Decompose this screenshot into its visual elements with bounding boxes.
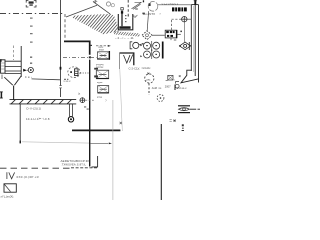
thick L conveyor edge <box>64 41 90 54</box>
svg-text:μπς: μπς <box>146 78 151 81</box>
flag X near top <box>132 2 142 9</box>
vertical below bar <box>19 104 21 141</box>
main dark vertical x89.7 <box>89 60 91 167</box>
roof left line <box>66 5 97 17</box>
svg-text:AERETOHBOCP.3KI: AERETOHBOCP.3KI <box>61 159 91 163</box>
motor M2 core <box>75 69 78 76</box>
peak vent marks <box>94 1 97 4</box>
svg-text:←2→↕←→.11: ←2→↕←→.11 <box>115 36 134 40</box>
tiny marks near <box>170 120 172 122</box>
pipe below bar end <box>69 104 71 116</box>
plate lines <box>5 61 21 73</box>
dark bar in channel <box>119 26 130 29</box>
svg-text:x=xx: x=xx <box>97 96 103 99</box>
svg-text:C-2-C1)(: C-2-C1)( <box>129 67 140 71</box>
svg-text:(x: (x <box>78 92 81 96</box>
arrow left-pointing <box>23 69 27 72</box>
pump circle with arrow <box>130 42 132 49</box>
diamond D2 <box>184 22 186 42</box>
tick on vertical <box>60 67 62 70</box>
svg-text:≡x.: ≡x. <box>159 87 163 90</box>
dashed arrow above X-box 1 <box>96 45 108 47</box>
labels left of X-box 2 <box>94 68 98 78</box>
I cap <box>1 75 3 80</box>
cylinder rod <box>194 0 196 5</box>
X-box bottom edges <box>96 59 109 93</box>
sight glass component <box>178 106 190 113</box>
left edge tick <box>0 59 2 62</box>
thick line y131 <box>72 129 120 131</box>
small dashes right <box>30 57 32 58</box>
centerline top dash-dot <box>0 13 64 15</box>
relay box <box>165 30 177 38</box>
marks column in channel <box>125 15 129 22</box>
X-box 2 <box>96 70 108 79</box>
monitor icon inner blob <box>29 1 34 5</box>
svg-text:›: › <box>160 12 161 16</box>
right tick dark <box>143 0 144 2</box>
circle top with line <box>148 2 158 12</box>
valve circle X <box>68 117 73 122</box>
svg-text:=x==: =x== <box>97 82 103 85</box>
svg-text:AvM: AvM <box>152 86 157 90</box>
funnel <box>4 76 21 99</box>
faint long line to arrow <box>22 142 89 143</box>
tiny x above <box>147 73 149 75</box>
dashed vertical x65 <box>64 14 66 40</box>
cluster box with X right <box>168 75 173 80</box>
faint vertical x113 <box>112 100 114 200</box>
circle with bracket right <box>175 82 179 89</box>
dotted wire motor to vertical <box>80 72 89 74</box>
svg-text:D-V-(2)(1): D-V-(2)(1) <box>27 107 42 111</box>
strip hatch under channel <box>108 28 150 38</box>
dashed vertical left <box>13 46 15 61</box>
four gauges <box>151 41 153 59</box>
wire circle to diamond D1 <box>147 11 148 30</box>
dash-dot line y57.5 <box>63 57 97 59</box>
svg-text:x.x-x.x/xxxx.x: x.x-x.x/xxxx.x <box>162 2 179 6</box>
fold line dashes column <box>30 18 33 43</box>
tiny x mark near line end <box>120 122 122 124</box>
svg-text:Dx-xNTX: Dx-xNTX <box>143 12 155 16</box>
svg-text:xY|_|xx(X).: xY|_|xx(X). <box>1 194 15 198</box>
svg-text:C.2-xx-x: C.2-xx-x <box>177 86 188 90</box>
U channel <box>118 14 133 30</box>
svg-text:2007: 2007 <box>165 84 171 88</box>
asterisk mark <box>173 119 176 122</box>
circle plus at bar end <box>80 97 86 103</box>
svg-text:): ) <box>106 98 107 102</box>
tick right of vertical <box>91 45 92 46</box>
left assembly tank <box>1 60 5 73</box>
big hatch slab <box>58 2 152 36</box>
bolt <box>121 11 123 27</box>
bottom dash-dot line <box>0 167 70 169</box>
wire from circle to cylinder <box>158 4 191 6</box>
motor M2 dashed ellipse <box>68 67 80 78</box>
dotted then solid line to x60 <box>25 76 32 78</box>
tick before text row <box>174 85 176 91</box>
tiny marks right of x60 line at y79 <box>64 79 66 80</box>
X-box 3 <box>98 86 109 94</box>
doc box <box>4 184 16 192</box>
diamond D1 <box>142 31 152 40</box>
bottom right vertical <box>160 124 162 200</box>
vertical line x60.5 <box>60 0 62 97</box>
dashed circle <box>157 95 164 102</box>
crosshair circle <box>181 16 188 22</box>
svg-text:=x3-x0x: =x3-x0x <box>142 67 152 70</box>
bracket circle component left <box>145 74 154 83</box>
stacked marks <box>182 124 184 131</box>
right wall vertical <box>20 46 22 77</box>
small circles right of peak <box>106 2 110 6</box>
cylinder right <box>181 5 199 83</box>
svg-text:x·xx·x: x·xx·x <box>64 80 72 83</box>
dark label block <box>172 7 187 11</box>
svg-text:xxxx: xxxx <box>99 48 105 51</box>
svg-text:›: › <box>174 78 175 82</box>
monitor icon M1 corner brackets <box>26 0 36 7</box>
svg-text:0X0·|0·|0P·x3: 0X0·|0·|0P·x3 <box>17 175 39 179</box>
break on vertical <box>59 86 62 88</box>
circle indicator <box>28 67 33 72</box>
funnel box middle <box>119 53 133 65</box>
junction node on vertical <box>89 56 91 58</box>
tiny x near boot <box>179 75 181 77</box>
svg-text:10-1-H·1⊢⊣-0·8: 10-1-H·1⊢⊣-0·8 <box>26 117 50 121</box>
roof right line <box>93 2 110 14</box>
E/ marks <box>132 15 137 18</box>
V check mark <box>6 172 8 179</box>
tiny marks near bar end <box>84 107 89 110</box>
svg-text:.TXWSVEA.S.8T.IL: .TXWSVEA.S.8T.IL <box>61 162 87 166</box>
ground bar hatched <box>10 100 77 104</box>
X-box 1 <box>97 52 109 59</box>
dashed vertical x128 <box>127 0 129 18</box>
